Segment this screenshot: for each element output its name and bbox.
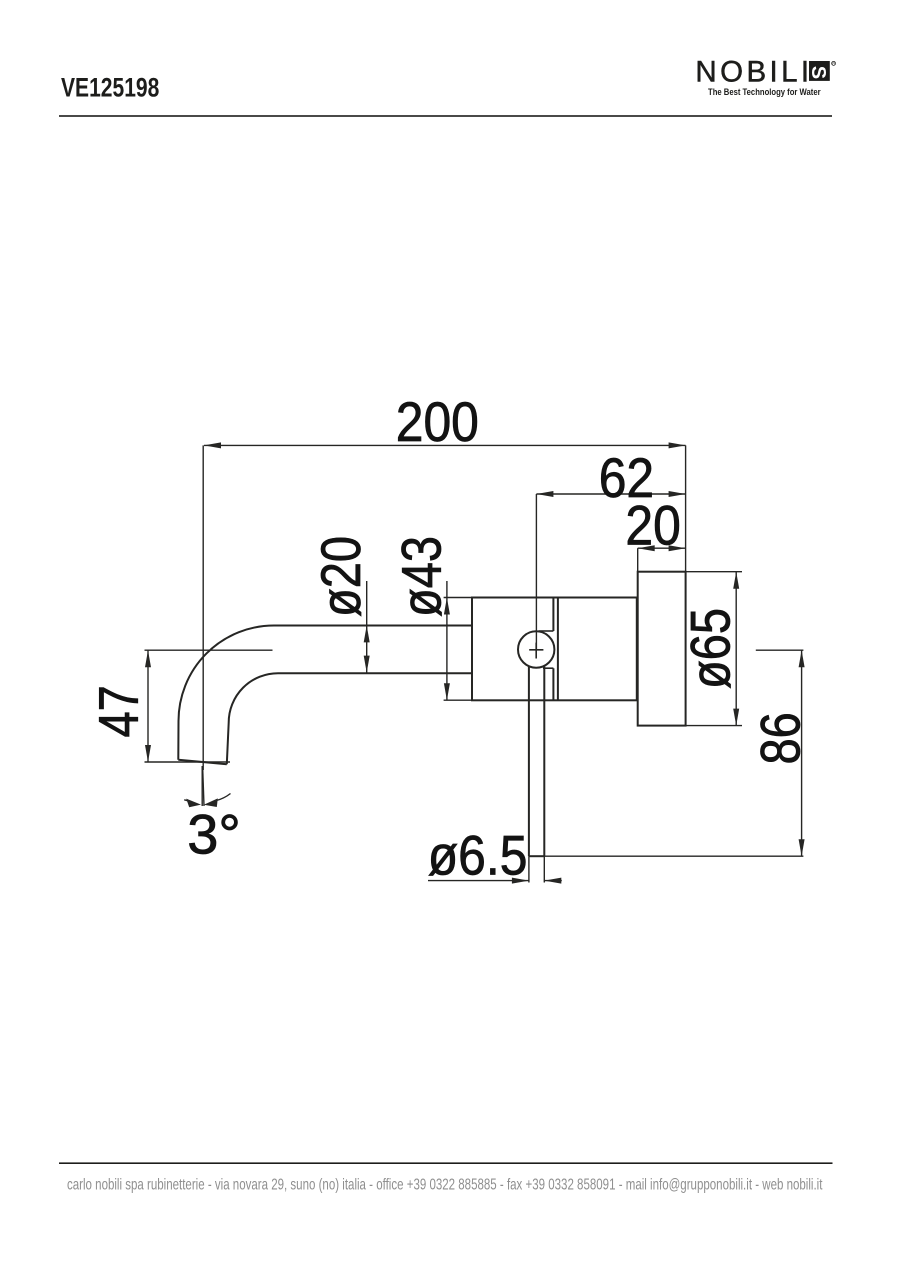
dim line 86 xyxy=(801,650,803,856)
extension line spout tip bottom xyxy=(145,761,231,763)
pivot cross xyxy=(529,643,543,659)
angle arc left tail xyxy=(184,800,191,802)
extension line flange left top xyxy=(637,548,639,572)
pivot circle xyxy=(518,631,554,667)
extension line flange right top xyxy=(685,445,687,571)
dim leader diameter 6.5 right xyxy=(544,880,562,882)
arrow dia43 bottom xyxy=(444,683,450,700)
arrow 20 right xyxy=(669,545,686,551)
body internal vertical B (plate edge) xyxy=(557,598,559,701)
svg-text:ø20: ø20 xyxy=(309,536,372,617)
lever left edge xyxy=(528,666,530,856)
spout outer profile xyxy=(178,626,472,760)
svg-text:3°: 3° xyxy=(187,802,241,865)
arrow dia43 top xyxy=(444,598,450,615)
arrowheads xyxy=(145,442,805,883)
logo square with S xyxy=(809,61,830,81)
dim line diameter 43 xyxy=(446,581,448,700)
extension line body centerline xyxy=(535,494,537,650)
dim line 20 xyxy=(638,547,686,549)
lever bottom cap xyxy=(529,855,544,857)
spout inner profile xyxy=(227,673,472,764)
arrow 20 left xyxy=(638,545,655,551)
svg-text:The Best Technology for Water: The Best Technology for Water xyxy=(708,86,821,97)
arrow dia65 top xyxy=(733,572,739,589)
extension line flange bottom right xyxy=(686,725,742,727)
arrow dia6.5 right xyxy=(544,878,561,884)
extension line lever right below xyxy=(543,856,545,882)
arrow 86 top xyxy=(799,650,805,667)
wall flange rectangle xyxy=(638,572,686,726)
dim line 200 xyxy=(204,444,686,446)
svg-text:VE125198: VE125198 xyxy=(61,73,159,103)
slot edge above pivot xyxy=(539,630,554,632)
angle reference vertical xyxy=(201,766,203,806)
arrow 62 right xyxy=(669,491,686,497)
arrow 86 bottom xyxy=(799,839,805,856)
body internal vertical A xyxy=(552,598,554,701)
arrow 47 top xyxy=(145,650,151,667)
lever right edge xyxy=(543,666,545,856)
arrow 47 bottom xyxy=(145,745,151,762)
arrow 200 left xyxy=(204,442,221,448)
spout tip edge (3 deg) xyxy=(178,760,227,764)
svg-text:20: 20 xyxy=(625,495,680,557)
svg-text:carlo nobili spa rubinetterie: carlo nobili spa rubinetterie - via nova… xyxy=(67,1174,823,1192)
angle arc right tail xyxy=(217,794,231,801)
body rectangle xyxy=(472,598,637,701)
svg-text:S: S xyxy=(807,66,829,79)
extension line spout center left xyxy=(145,649,273,651)
arrow angle left xyxy=(186,799,201,808)
angle reference slanted xyxy=(203,766,204,806)
svg-text:NOBILI: NOBILI xyxy=(695,55,812,88)
extension line body top xyxy=(444,597,472,599)
arrow 62 left xyxy=(536,491,553,497)
extension line spout center right xyxy=(756,649,804,651)
extension line lever left below xyxy=(528,856,530,882)
dimension labels xyxy=(87,391,812,887)
svg-text:R: R xyxy=(832,61,835,66)
dim line diameter 20 xyxy=(366,581,368,673)
dim line 62 xyxy=(536,493,685,495)
registered trademark xyxy=(832,61,836,65)
svg-text:86: 86 xyxy=(749,712,812,764)
arrow 200 right xyxy=(669,442,686,448)
slot edge below pivot xyxy=(543,667,553,669)
svg-text:ø43: ø43 xyxy=(390,536,453,617)
footer rule xyxy=(59,1162,833,1164)
svg-text:ø65: ø65 xyxy=(679,608,742,689)
dim leader diameter 6.5 left xyxy=(428,880,529,882)
svg-text:200: 200 xyxy=(396,391,479,453)
extension line flange top right xyxy=(686,571,742,573)
arrow dia20 bottom xyxy=(364,656,370,673)
arrow angle right xyxy=(204,798,218,807)
extension line body bottom xyxy=(444,699,472,701)
dim line diameter 65 xyxy=(735,572,737,726)
header rule xyxy=(59,115,832,117)
logo NOBILI wordmark xyxy=(695,55,835,97)
svg-text:47: 47 xyxy=(87,685,150,737)
arrow dia6.5 left xyxy=(512,878,529,884)
extension line lever bottom xyxy=(544,855,803,857)
dim line 47 xyxy=(147,650,149,762)
product code VE125198 xyxy=(61,73,159,103)
svg-text:ø6.5: ø6.5 xyxy=(428,825,528,887)
arrow dia20 top xyxy=(364,625,370,642)
arrow dia65 bottom xyxy=(733,709,739,726)
extension line spout tip centerline xyxy=(202,445,204,770)
